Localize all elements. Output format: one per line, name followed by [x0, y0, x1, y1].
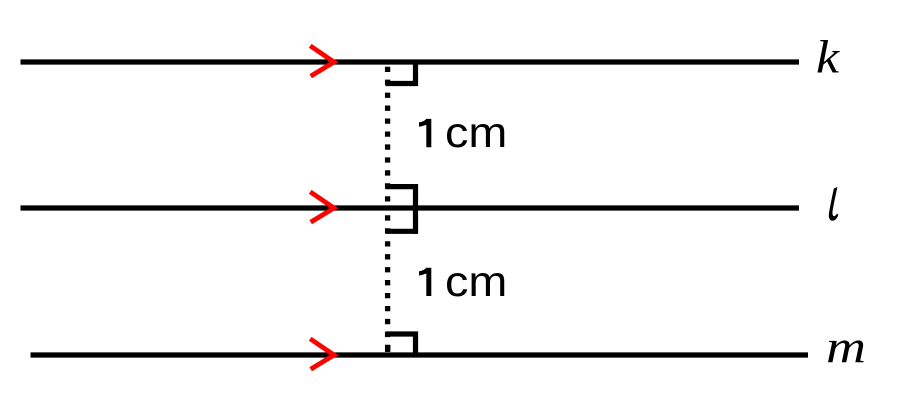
line m: [31, 352, 809, 357]
svg-text:k: k: [816, 31, 840, 83]
svg-text:cm: cm: [445, 109, 507, 157]
wire dotted: last dot above line m: [385, 345, 390, 352]
right angle mark at m: [386, 332, 419, 356]
label 1cm upper: digit 1: [419, 119, 431, 147]
svg-text:cm: cm: [445, 258, 507, 306]
svg-text:m: m: [826, 321, 866, 373]
line l: [21, 205, 800, 210]
label 1cm lower: digit 1: [419, 268, 431, 296]
right angle mark at l: [386, 184, 419, 234]
arrow on line m: [310, 339, 334, 369]
arrow on line k: [310, 46, 334, 76]
label l: [829, 187, 839, 221]
line k: [21, 59, 800, 64]
wire dotted perpendicular lower segment: [385, 215, 390, 350]
arrow on line l: [310, 192, 334, 222]
wire dotted perpendicular upper segment: [385, 67, 390, 202]
right angle mark at k: [386, 62, 419, 86]
